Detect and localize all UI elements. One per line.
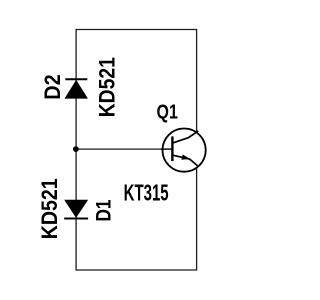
- transistor Q1 emitter line: [173, 155, 198, 166]
- transistor Q1 body circle: [163, 129, 206, 172]
- diode D2 cathode bar: [65, 78, 87, 80]
- svg-text:Q1: Q1: [157, 101, 178, 123]
- transistor Q1 emitter arrow: [181, 154, 190, 159]
- transistor Q1 collector line: [173, 131, 199, 143]
- svg-text:KD521: KD521: [38, 178, 62, 239]
- diode D1 anode triangle: [65, 200, 88, 217]
- transistor Q1 base bar: [171, 136, 173, 161]
- svg-text:KD521: KD521: [95, 57, 119, 117]
- node junction dot: [73, 146, 79, 152]
- wire left: [75, 29, 77, 271]
- svg-text:D2: D2: [41, 74, 65, 99]
- wire bottom: [76, 269, 197, 271]
- wire right upper (collector net): [196, 29, 198, 132]
- svg-text:D1: D1: [93, 199, 116, 221]
- wire right lower (emitter net): [196, 166, 198, 270]
- transistor Q1 base lead inside circle: [161, 148, 172, 150]
- diode D1 cathode bar: [64, 218, 88, 220]
- svg-text:KT315: KT315: [124, 180, 169, 206]
- wire top: [76, 29, 197, 31]
- wire base (junction to transistor): [76, 148, 172, 150]
- diode D2 anode triangle: [65, 81, 87, 99]
